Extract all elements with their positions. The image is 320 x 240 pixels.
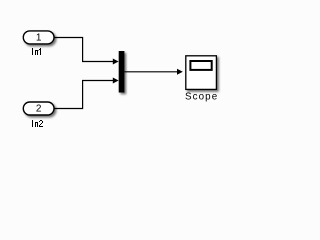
svg-text:2: 2 [36, 104, 42, 115]
svg-text:Scope: Scope [185, 92, 218, 103]
svg-text:1: 1 [36, 33, 42, 44]
